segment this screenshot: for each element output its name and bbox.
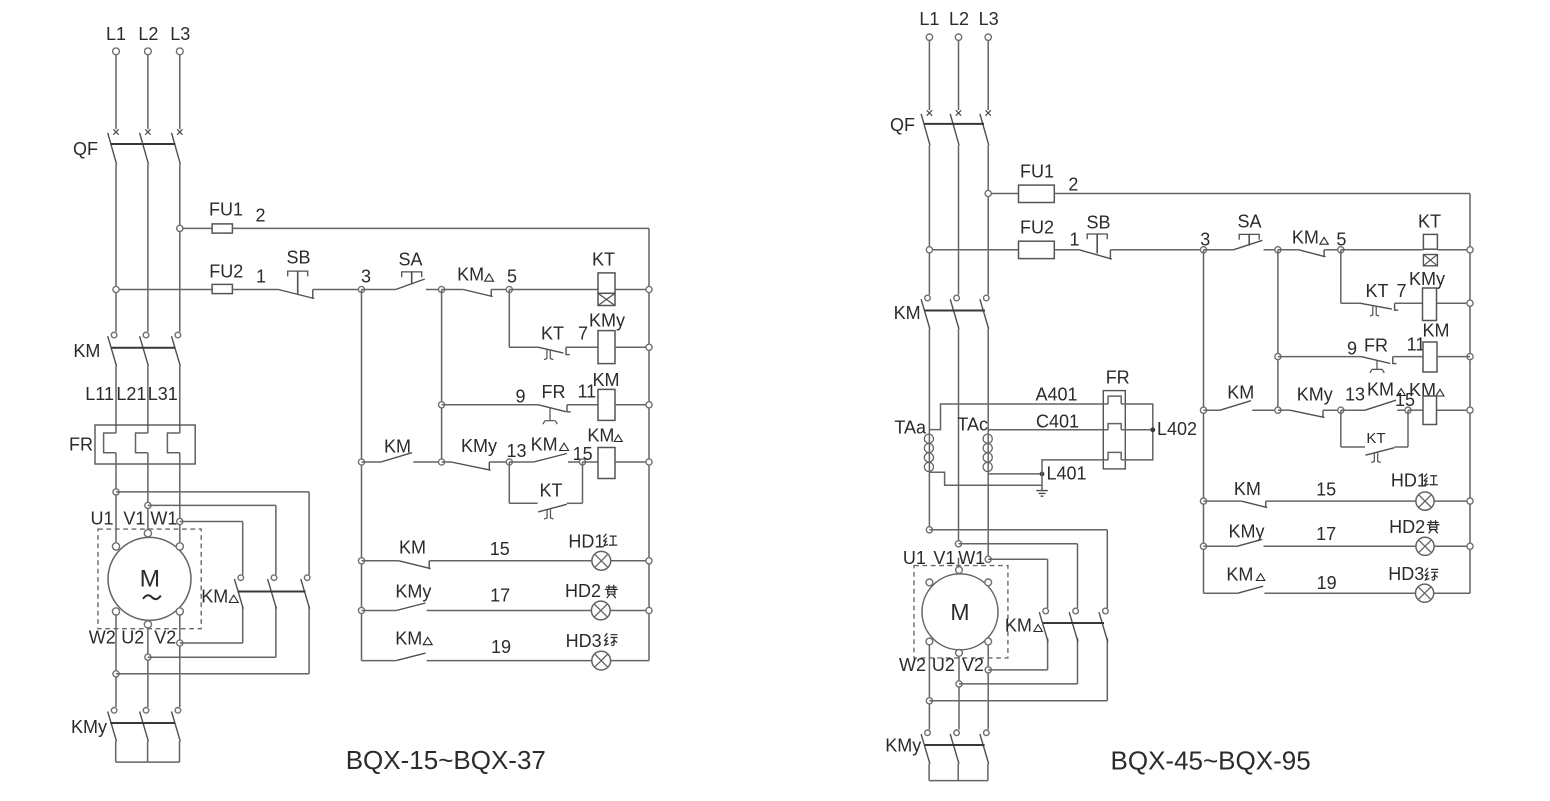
wire SB to node 3: [313, 289, 362, 291]
QF linkage bar right: [925, 123, 985, 125]
wire L2 down to QF: [147, 55, 149, 130]
wire QF to KM pole3 right: [987, 145, 989, 294]
wire to node 15: [568, 461, 583, 463]
wire HD1 to bus: [611, 560, 649, 562]
node bus row4 right: [1467, 407, 1473, 413]
wire node13 to KMdelta right: [1341, 409, 1365, 411]
svg-text:KM: KM: [1005, 616, 1032, 636]
wire L1 down to QF: [115, 55, 117, 130]
svg-text:19: 19: [1317, 573, 1337, 593]
svg-text:SA: SA: [1237, 212, 1261, 232]
node bus row4: [646, 459, 652, 465]
wire motor bottom down: [147, 628, 149, 707]
wire to KMy coil right: [1395, 302, 1423, 304]
wire to lamp HD1: [429, 560, 592, 562]
wire KMy pole3 to star bar: [179, 741, 181, 762]
row4 wire from rail right: [1204, 409, 1221, 411]
svg-text:A401: A401: [1035, 385, 1077, 405]
wire W1 tap right-diagram: [988, 558, 1047, 560]
FR right side loop: [1121, 404, 1153, 460]
svg-text:FU1: FU1: [1020, 162, 1054, 182]
KT branch bottom left: [509, 502, 537, 504]
node lamp2 left right: [1200, 543, 1206, 549]
wire KM pole2 down right: [958, 329, 960, 541]
HD3 row wire: [362, 660, 397, 662]
wire KMy pole2 to star bar: [147, 741, 149, 762]
wire to HD2 right: [1264, 545, 1416, 547]
node U2 tap: [145, 654, 151, 660]
node U1 tap: [113, 489, 119, 495]
svg-text:V2: V2: [962, 655, 984, 675]
node bus HD2: [646, 607, 652, 613]
svg-text:L1: L1: [919, 9, 939, 29]
wire to node 13: [489, 461, 509, 463]
node bus row2: [646, 344, 652, 350]
wire U1 tap right-diagram: [929, 529, 1107, 531]
wire L3 down to QF: [179, 55, 181, 130]
svg-text:KM: KM: [531, 435, 558, 455]
node rail2 row4: [439, 459, 445, 465]
svg-text:M: M: [140, 566, 160, 593]
wire to node15 right: [1397, 409, 1408, 411]
FR heater top: [1108, 396, 1121, 404]
svg-text:2: 2: [1068, 175, 1078, 195]
node lamp row2 left: [358, 607, 364, 613]
wire L401 up to FR: [1042, 460, 1108, 474]
node W2 tap: [113, 671, 119, 677]
wire phase2 to motor right: [958, 558, 960, 567]
node FU1 tap right: [985, 190, 991, 196]
svg-text:KM: KM: [395, 629, 422, 649]
wire FR pole1 down: [115, 453, 117, 543]
node W1 tap right: [985, 556, 991, 562]
wire KM pole1 down right: [928, 329, 930, 527]
wire KM pole1 down: [115, 366, 117, 433]
svg-text:17: 17: [490, 586, 510, 606]
motor terminal W1: [176, 543, 183, 550]
svg-text:KT: KT: [1418, 212, 1441, 232]
svg-text:KM: KM: [1226, 565, 1253, 585]
svg-text:KT: KT: [541, 324, 564, 344]
node bus row1: [646, 286, 652, 292]
svg-text:KM: KM: [201, 587, 228, 607]
row2 wire left: [509, 346, 538, 348]
wire motor bottom down right: [958, 656, 960, 729]
KT branch bottom right right: [1395, 446, 1409, 448]
KMy linkage bar right: [925, 744, 985, 746]
HD3 row wire right: [1204, 592, 1238, 594]
wire KMdelta pole3 down: [308, 606, 310, 674]
svg-text:5: 5: [507, 267, 517, 287]
motor tilde: [143, 595, 161, 599]
wire W2 tap right: [116, 673, 309, 675]
motor dashed enclosure: [98, 529, 201, 629]
wire KT coil to bus right: [1437, 249, 1470, 251]
motor dashed enclosure right: [914, 566, 1008, 658]
wire KM pole2 down: [147, 366, 149, 433]
wire to KMy NC right: [1278, 409, 1290, 411]
motor terminal lower-left: [112, 608, 119, 615]
wire L402: [1121, 429, 1153, 431]
motor terminal lower-right: [176, 608, 183, 615]
HD1 row wire: [362, 560, 399, 562]
row4 wire from left bus: [362, 461, 382, 463]
svg-text:KM: KM: [1292, 228, 1319, 248]
wire HD2 to bus right: [1434, 545, 1470, 547]
wire FU2 to SB: [232, 289, 278, 291]
wire node5 to KT coil right: [1341, 249, 1424, 251]
wire to KMdelta contact: [442, 289, 464, 291]
svg-text:L2: L2: [949, 9, 969, 29]
wire down to KMdelta pole1: [242, 522, 244, 575]
wire FU1 left: [183, 227, 212, 229]
node rail2 row4 right: [1275, 407, 1281, 413]
motor M circle right: [922, 574, 998, 650]
wire KMy pole2 down right: [957, 764, 959, 781]
svg-text:L3: L3: [170, 24, 190, 44]
wire FU2 to SB right: [1054, 249, 1079, 251]
wire HD1 to bus right: [1434, 500, 1470, 502]
wire FU2 left right-diagram: [933, 249, 1019, 251]
KT branch left leg right: [1340, 410, 1342, 447]
motor terminal U1 right: [926, 579, 933, 586]
svg-text:BQX-15~BQX-37: BQX-15~BQX-37: [346, 745, 546, 775]
svg-text:19: 19: [491, 637, 511, 657]
wire to KMy contact: [442, 461, 452, 463]
node bus HD2 right: [1467, 543, 1473, 549]
motor terminal U1: [112, 543, 119, 550]
svg-text:W1: W1: [150, 509, 177, 529]
svg-text:KM: KM: [457, 265, 484, 285]
wire to HD3 right: [1264, 592, 1415, 594]
svg-text:M: M: [950, 599, 969, 625]
node V1 tap right: [955, 541, 961, 547]
node bus HD1: [646, 558, 652, 564]
node bus HD1 right: [1467, 498, 1473, 504]
wire node3 to SA: [362, 289, 396, 291]
KT coil x-box right: [1423, 255, 1437, 266]
svg-text:KMy: KMy: [885, 736, 921, 756]
control bus right side 2: [1469, 194, 1471, 594]
svg-text:BQX-45~BQX-95: BQX-45~BQX-95: [1111, 746, 1311, 776]
KM linkage bar: [111, 347, 175, 349]
row3 wire left right: [1278, 356, 1361, 358]
wire V2 tap to pole1 right: [988, 669, 1047, 671]
wire node13 to KMdelta contact: [509, 461, 533, 463]
svg-text:FR: FR: [69, 435, 93, 455]
wire KT coil to bus: [615, 289, 649, 291]
HD1 row wire right: [1204, 500, 1242, 502]
svg-text:KMy: KMy: [1297, 385, 1333, 405]
wire V2 tap right: [180, 642, 243, 644]
wire FU1 left right-diagram: [991, 193, 1018, 195]
svg-text:KM: KM: [587, 426, 614, 446]
wire to SA rail right: [1252, 409, 1278, 411]
svg-text:C401: C401: [1036, 412, 1079, 432]
motor terminal U2 bottom: [144, 621, 151, 628]
wire to node13 right: [1323, 409, 1341, 411]
svg-text:HD3: HD3: [1388, 564, 1424, 584]
wire U2 tap to pole2 right: [959, 683, 1078, 685]
HD2 row wire right: [1204, 545, 1237, 547]
svg-text:TAc: TAc: [957, 415, 988, 435]
node lamp1 left right: [1200, 498, 1206, 504]
node bus row1 right: [1467, 247, 1473, 253]
svg-text:KM: KM: [593, 370, 620, 390]
svg-text:KMy: KMy: [1409, 269, 1445, 289]
wire L3 down right: [987, 40, 989, 110]
wire to node 5: [491, 289, 509, 291]
svg-text:KM: KM: [73, 341, 100, 361]
svg-text:KM: KM: [894, 303, 921, 323]
motor terminal W1 right: [985, 579, 992, 586]
wire KMy pole1 to star bar: [115, 741, 117, 762]
wire C401: [988, 429, 1108, 431]
svg-text:HD3: HD3: [566, 631, 602, 651]
wire down KMdelta pole2 right: [1077, 544, 1079, 608]
svg-text:FR: FR: [1364, 336, 1388, 356]
wire FR to KM coil right: [1393, 356, 1423, 358]
wire KMy pole3 down right: [987, 764, 989, 781]
svg-text:TAa: TAa: [894, 418, 927, 438]
svg-text:15: 15: [1316, 479, 1336, 499]
node rail row3 right: [1275, 354, 1281, 360]
rail from node3 down: [361, 290, 363, 661]
wire QF pole2 to KM: [147, 164, 149, 331]
wire FR to KM coil: [567, 404, 598, 406]
svg-text:HD1: HD1: [568, 531, 604, 551]
node left rail row4 right: [1200, 407, 1206, 413]
svg-text:KM: KM: [399, 538, 426, 558]
svg-text:13: 13: [1345, 385, 1365, 405]
wire KMdelta coil to bus right: [1437, 409, 1471, 411]
star point bar: [116, 761, 180, 763]
node V2 tap: [177, 640, 183, 646]
wire QF to KM pole2 right: [958, 145, 960, 294]
svg-text:HD1: HD1: [1391, 471, 1427, 491]
svg-text:QF: QF: [73, 139, 98, 159]
svg-text:KMy: KMy: [71, 717, 107, 737]
wire FR pole2 down: [147, 453, 149, 529]
svg-text:L3: L3: [979, 9, 999, 29]
svg-text:SB: SB: [286, 248, 310, 268]
svg-text:KT: KT: [592, 250, 615, 270]
svg-text:KM: KM: [1227, 383, 1254, 403]
svg-text:W1: W1: [958, 548, 985, 568]
wire W2 tap to pole3 right: [929, 700, 1107, 702]
wire L1 down right: [928, 40, 930, 110]
svg-text:U2: U2: [121, 628, 144, 648]
wire to node5 right: [1324, 249, 1341, 251]
FR heater middle: [1108, 424, 1121, 430]
wire KM pole3 down: [179, 366, 181, 433]
rail node3 down right: [1203, 250, 1205, 593]
node bus row2 right: [1467, 300, 1473, 306]
wire U1 tap right: [116, 491, 309, 493]
ground symbol: [1036, 491, 1048, 497]
KMy linkage bar: [110, 722, 175, 724]
svg-text:KT: KT: [539, 481, 562, 501]
wire KMdelta pole2 down: [275, 606, 277, 657]
rail SA node down right: [1277, 250, 1279, 410]
svg-text:3: 3: [361, 267, 371, 287]
svg-text:L402: L402: [1157, 419, 1197, 439]
wire V1 tap right: [148, 504, 276, 506]
svg-text:U1: U1: [90, 509, 113, 529]
svg-text:FU1: FU1: [209, 200, 243, 220]
svg-text:1: 1: [256, 266, 266, 286]
wire QF pole1 to KM: [115, 164, 117, 331]
wire to lamp HD3: [427, 660, 592, 662]
node FU2 tap right: [926, 247, 932, 253]
svg-text:KT: KT: [1365, 281, 1388, 301]
wire down to KMdelta pole3: [308, 492, 310, 575]
wire TAc bottom tap L401: [988, 473, 1042, 475]
svg-text:13: 13: [506, 441, 526, 461]
node W2 tap right: [926, 698, 932, 704]
svg-text:KM: KM: [1423, 321, 1450, 341]
svg-text:SB: SB: [1086, 213, 1110, 233]
svg-text:L31: L31: [148, 384, 178, 404]
wire KM coil to bus: [615, 404, 649, 406]
node U2 tap right: [956, 681, 962, 687]
wire KMdelta coil to bus: [615, 461, 649, 463]
wire KM pole3 down right: [987, 329, 989, 556]
wire down KMdelta pole3 right: [1106, 530, 1108, 608]
wire KMy coil to bus: [615, 346, 649, 348]
motor terminal U2 right: [956, 650, 963, 657]
svg-text:KMy: KMy: [395, 582, 431, 602]
svg-text:L2: L2: [138, 24, 158, 44]
motor terminal V1 right: [956, 567, 963, 574]
wire to HD1 right: [1266, 500, 1416, 502]
wire W1 tap right: [180, 521, 243, 523]
wire FU2 left: [119, 289, 212, 291]
KT coil x-box: [598, 293, 615, 305]
node bus row3: [646, 402, 652, 408]
wire SB to node3 right: [1110, 249, 1203, 251]
wire node15 to coil right: [1408, 409, 1423, 411]
motor terminal V1: [144, 530, 151, 537]
wire HD2 to bus: [610, 610, 649, 612]
wire to lamp HD2: [427, 610, 592, 612]
svg-text:L401: L401: [1047, 464, 1087, 484]
wire KM coil to bus right: [1467, 354, 1473, 360]
svg-text:7: 7: [1396, 281, 1406, 301]
motor M circle: [108, 537, 191, 620]
node lamp row1 left: [358, 558, 364, 564]
KMdelta linkage bar right: [1043, 622, 1104, 624]
row3 wire left: [442, 404, 539, 406]
svg-text:9: 9: [515, 387, 525, 407]
svg-text:L1: L1: [106, 24, 126, 44]
svg-text:KT: KT: [1366, 430, 1385, 447]
wire node5 to KT coil: [509, 289, 598, 291]
svg-text:L11: L11: [85, 384, 114, 404]
KT branch right leg: [582, 462, 584, 503]
junction dot L402: [1150, 427, 1155, 432]
wire KMdelta pole3 down right: [1106, 638, 1108, 701]
svg-text:FR: FR: [1106, 368, 1130, 388]
svg-text:SA: SA: [398, 250, 422, 270]
KM linkage bar right: [924, 310, 985, 312]
wire QF pole3 to KM: [179, 164, 181, 331]
wire KMy coil to bus right: [1437, 302, 1471, 304]
KMdelta linkage bar: [238, 591, 306, 593]
wire KMy pole1 down right: [928, 764, 930, 781]
wire ground riser: [1041, 474, 1043, 491]
control bus right side: [648, 228, 650, 660]
node rail row3: [439, 402, 445, 408]
svg-text:W2: W2: [899, 655, 926, 675]
row2 wire left right: [1341, 302, 1360, 304]
svg-text:KM: KM: [1234, 479, 1261, 499]
svg-text:QF: QF: [890, 115, 915, 135]
wire down KMdelta pole1 right: [1047, 559, 1049, 608]
svg-text:U2: U2: [932, 655, 955, 675]
svg-text:7: 7: [578, 324, 588, 344]
wire motor lower-right down: [179, 615, 181, 707]
wire KMdelta pole1 down right: [1047, 638, 1049, 670]
svg-text:L21: L21: [116, 384, 146, 404]
KT branch bottom left right: [1341, 446, 1365, 448]
svg-text:HD2: HD2: [1389, 517, 1425, 537]
QF linkage bar: [111, 143, 176, 145]
wire HD3 to bus: [611, 660, 649, 662]
svg-text:KMy: KMy: [1229, 522, 1265, 542]
svg-text:KMy: KMy: [589, 311, 625, 331]
node FU1 tap on L3: [177, 225, 183, 231]
svg-text:1: 1: [1069, 229, 1079, 249]
wire KMdelta pole2 down right: [1077, 638, 1079, 684]
svg-text:15: 15: [490, 539, 510, 559]
svg-text:V1: V1: [123, 509, 145, 529]
svg-text:W2: W2: [89, 628, 116, 648]
wire down to KMdelta pole2: [275, 505, 277, 574]
wire to KMdelta NC right: [1278, 249, 1299, 251]
node bus-left row4: [358, 459, 364, 465]
svg-text:9: 9: [1347, 339, 1357, 359]
node V1 tap: [145, 502, 151, 508]
svg-text:2: 2: [255, 206, 265, 226]
wire SA out right: [1264, 249, 1278, 251]
node FU2 tap on L1: [113, 286, 119, 292]
wire KMdelta pole1 down: [242, 606, 244, 643]
node W1 tap: [177, 518, 183, 524]
FR heater bottom: [1108, 452, 1121, 460]
node SA out right: [1275, 247, 1281, 253]
KT branch bottom right: [567, 502, 583, 504]
wire motor lower-left down: [115, 615, 117, 707]
rail node5 down right: [1340, 250, 1342, 303]
wire node15 to KMdelta coil: [583, 461, 599, 463]
wire node3 to SA right: [1204, 249, 1234, 251]
wire FR pole3 down: [179, 453, 181, 543]
rail from node5 down: [508, 290, 510, 348]
KT branch left leg: [508, 462, 510, 503]
svg-text:KM: KM: [1367, 380, 1394, 400]
wire motor lower-left down right: [928, 645, 930, 730]
wire L2 down right: [958, 40, 960, 110]
HD2 row wire: [362, 610, 397, 612]
svg-text:17: 17: [1316, 524, 1336, 544]
wire U2 tap right: [148, 656, 276, 658]
svg-text:V2: V2: [154, 628, 176, 648]
node SA out: [439, 286, 445, 292]
svg-text:FU2: FU2: [1020, 218, 1054, 238]
KT branch right leg right: [1407, 410, 1409, 447]
rail from SA node down: [441, 290, 443, 463]
